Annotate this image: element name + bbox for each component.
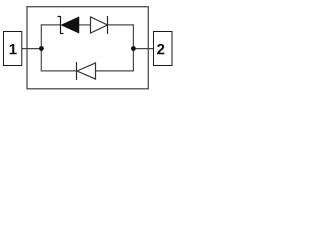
wire: node B to terminal 2 xyxy=(133,48,153,50)
wire: left vertical branch xyxy=(40,24,42,71)
zener diode D1 cathode bar xyxy=(58,17,64,34)
wire: bottom branch right segment xyxy=(96,70,134,72)
diode D2 anode triangle xyxy=(91,17,108,33)
diode D2 cathode bar xyxy=(107,16,109,34)
zener diode D1 anode triangle (filled) xyxy=(61,17,79,33)
wire: top branch right segment xyxy=(108,24,134,26)
diode D3 cathode bar xyxy=(76,62,78,80)
pin label 2 xyxy=(157,44,164,54)
wire: right vertical branch xyxy=(132,24,134,71)
diode D3 anode triangle xyxy=(77,63,96,79)
wire: bottom branch left segment xyxy=(41,70,76,72)
pin label 1 xyxy=(10,44,17,54)
terminal 1 box xyxy=(4,32,22,66)
wire: terminal 1 to node A xyxy=(22,48,42,50)
component body outline xyxy=(27,7,148,89)
node A junction dot xyxy=(39,46,44,51)
terminal 2 box xyxy=(154,32,173,66)
wire: top branch middle segment xyxy=(79,24,91,26)
wire: top branch left segment xyxy=(41,24,60,26)
node B junction dot xyxy=(131,46,136,51)
